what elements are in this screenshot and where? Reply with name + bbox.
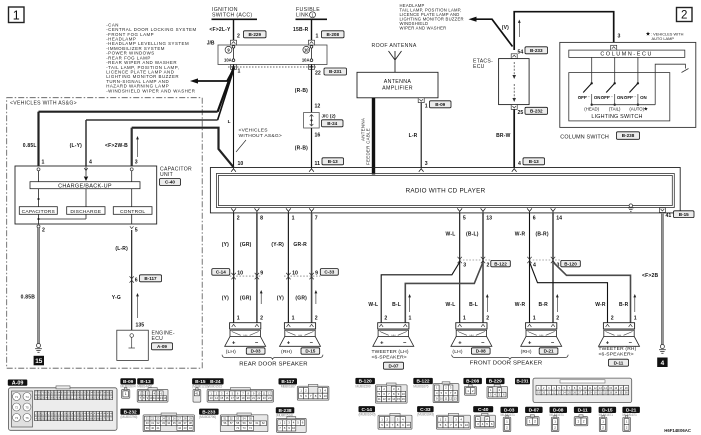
svg-text:10: 10	[292, 270, 298, 276]
svg-text:1: 1	[292, 316, 295, 322]
svg-text:148: 148	[109, 413, 114, 416]
svg-text:1: 1	[125, 392, 127, 396]
svg-text:(L-R): (L-R)	[115, 246, 128, 252]
svg-text:2: 2	[260, 316, 263, 322]
svg-text:C-40: C-40	[478, 407, 489, 413]
svg-text:ECU: ECU	[152, 336, 164, 342]
svg-text:FRONT DOOR SPEAKER: FRONT DOOR SPEAKER	[470, 361, 543, 367]
svg-text:9: 9	[260, 270, 263, 276]
svg-text:41: 41	[666, 213, 672, 219]
svg-text:COLUMN-ECU: COLUMN-ECU	[600, 52, 653, 58]
svg-text:(B-R): (B-R)	[535, 231, 548, 237]
svg-text:A-09: A-09	[157, 344, 167, 349]
svg-text:1: 1	[292, 216, 295, 222]
svg-text:OFF: OFF	[601, 95, 610, 100]
svg-text:2: 2	[42, 228, 45, 234]
svg-text:100: 100	[109, 392, 114, 395]
svg-text:2: 2	[237, 34, 240, 40]
svg-text:2: 2	[315, 316, 318, 322]
svg-text:14: 14	[556, 216, 562, 222]
svg-text:CAPACITORS: CAPACITORS	[22, 209, 56, 215]
svg-text:−: −	[551, 341, 555, 347]
svg-text:AUTO LAMP: AUTO LAMP	[652, 36, 675, 41]
svg-text:(HEAD): (HEAD)	[584, 107, 599, 112]
svg-text:73: 73	[15, 416, 19, 420]
svg-text:MU801676: MU801676	[413, 384, 428, 388]
svg-text:<VEHICLES: <VEHICLES	[239, 128, 269, 134]
svg-text:54: 54	[518, 50, 524, 56]
svg-text:B-208: B-208	[326, 32, 339, 37]
svg-text:REAR DOOR SPEAKER: REAR DOOR SPEAKER	[239, 362, 308, 368]
svg-text:D-08: D-08	[476, 349, 486, 354]
svg-text:<F>2B: <F>2B	[642, 273, 658, 279]
svg-text:22: 22	[315, 71, 321, 77]
svg-text:(TAIL): (TAIL)	[609, 107, 621, 112]
svg-text:B-R: B-R	[539, 302, 549, 308]
svg-text:B-R: B-R	[619, 302, 629, 308]
svg-text:10A: 10A	[224, 58, 232, 63]
svg-text:(RH): (RH)	[281, 349, 292, 355]
svg-text:13: 13	[387, 397, 390, 401]
svg-text:(GR): (GR)	[240, 296, 252, 302]
svg-text:11: 11	[315, 161, 321, 167]
svg-text:ON: ON	[640, 95, 647, 100]
svg-text:C-14: C-14	[216, 270, 226, 275]
svg-text:B-232: B-232	[530, 108, 543, 113]
svg-text:W-R: W-R	[595, 302, 606, 308]
svg-text:15: 15	[397, 397, 400, 401]
svg-text:OFF: OFF	[578, 95, 587, 100]
svg-text:L: L	[228, 119, 231, 125]
svg-text:C-33: C-33	[324, 270, 334, 275]
svg-text:B-13: B-13	[529, 159, 539, 164]
svg-text:AMPLIFIER: AMPLIFIER	[382, 86, 413, 92]
svg-text:13: 13	[486, 216, 492, 222]
svg-text:TWEETER (RH): TWEETER (RH)	[599, 346, 637, 352]
svg-text:71: 71	[15, 395, 19, 399]
svg-text:135: 135	[136, 323, 145, 329]
svg-text:8: 8	[260, 216, 263, 222]
svg-text:12: 12	[449, 396, 452, 400]
svg-text:Y-G: Y-G	[112, 295, 121, 301]
svg-text:MUM1671: MUM1671	[622, 413, 637, 417]
svg-text:1: 1	[529, 419, 531, 423]
svg-text:MU803904: MU803904	[120, 385, 135, 389]
svg-text:2: 2	[583, 419, 585, 423]
svg-text:10: 10	[406, 423, 410, 427]
svg-text:ON: ON	[594, 95, 601, 100]
svg-text:D-21: D-21	[544, 349, 554, 354]
svg-text:D-15: D-15	[305, 349, 315, 354]
svg-text:LIGHTING SWITCH: LIGHTING SWITCH	[591, 114, 642, 120]
svg-text:UNIT: UNIT	[160, 172, 173, 178]
svg-text:RADIO WITH CD PLAYER: RADIO WITH CD PLAYER	[406, 187, 486, 194]
svg-text:MUM1671: MUM1671	[550, 413, 565, 417]
svg-text:CHARGE/BACK-UP: CHARGE/BACK-UP	[58, 183, 112, 189]
svg-text:1: 1	[634, 316, 637, 322]
svg-text:(GR): (GR)	[240, 242, 252, 248]
svg-text:124: 124	[109, 396, 114, 399]
svg-text:(Y-R): (Y-R)	[271, 242, 284, 248]
svg-text:0.85B: 0.85B	[21, 295, 36, 301]
svg-text:76: 76	[25, 416, 29, 420]
svg-text:(MB801211): (MB801211)	[192, 385, 208, 389]
svg-text:(Y): (Y)	[277, 296, 284, 302]
svg-text:(LH): (LH)	[226, 349, 236, 355]
svg-text:-WINDSHIELD WIPER AND WASHER: -WINDSHIELD WIPER AND WASHER	[106, 88, 195, 93]
svg-text:15: 15	[35, 358, 43, 365]
svg-text:9: 9	[315, 270, 318, 276]
svg-text:B-09: B-09	[435, 102, 445, 107]
svg-text:4: 4	[518, 161, 521, 167]
svg-text:10: 10	[238, 161, 244, 167]
svg-text:B-208: B-208	[466, 379, 479, 385]
svg-text:B-13: B-13	[328, 159, 338, 164]
svg-text:14: 14	[392, 397, 395, 401]
svg-text:1: 1	[463, 316, 466, 322]
svg-text:12: 12	[383, 397, 386, 401]
svg-text:1: 1	[237, 316, 240, 322]
svg-text:4: 4	[661, 360, 665, 367]
svg-text:6: 6	[135, 278, 138, 284]
svg-text:OFF: OFF	[624, 95, 633, 100]
svg-text:3: 3	[618, 34, 621, 40]
svg-text:MB801867: MB801867	[281, 385, 296, 389]
svg-text:10A: 10A	[302, 58, 310, 63]
svg-text:B-L: B-L	[469, 302, 478, 308]
svg-text:ON: ON	[617, 95, 624, 100]
svg-text:LINK: LINK	[296, 13, 309, 19]
svg-text:2: 2	[681, 10, 687, 22]
svg-text:W-R: W-R	[515, 231, 526, 237]
svg-text:(RH): (RH)	[521, 349, 532, 355]
svg-text:2: 2	[486, 316, 489, 322]
svg-text:MUM1671: MUM1671	[599, 413, 614, 417]
svg-text:B-231: B-231	[329, 69, 342, 74]
svg-text:+: +	[458, 341, 462, 347]
svg-text:B-233: B-233	[530, 48, 543, 53]
svg-text:WIPER AND WASHER: WIPER AND WASHER	[400, 25, 447, 30]
svg-text:+: +	[232, 341, 236, 347]
svg-text:(Y): (Y)	[222, 242, 229, 248]
svg-text:11: 11	[378, 397, 381, 401]
svg-text:3: 3	[425, 161, 428, 167]
svg-text:W-L: W-L	[446, 231, 456, 237]
svg-text:41: 41	[195, 391, 199, 395]
svg-text:10: 10	[304, 48, 309, 53]
svg-text:−: −	[255, 341, 259, 347]
svg-text:<6-SPEAKER>: <6-SPEAKER>	[372, 355, 407, 361]
svg-text:4: 4	[533, 262, 536, 268]
svg-text:W-L: W-L	[446, 302, 456, 308]
svg-text:1: 1	[409, 316, 412, 322]
svg-text:(B-L): (B-L)	[466, 231, 479, 237]
svg-text:+: +	[528, 341, 532, 347]
svg-text:<VEHICLES WITH AS&G>: <VEHICLES WITH AS&G>	[10, 101, 77, 107]
svg-text:16: 16	[315, 133, 321, 139]
svg-text:GR-R: GR-R	[293, 242, 307, 248]
svg-text:ECU: ECU	[473, 64, 485, 70]
svg-text:1: 1	[533, 316, 536, 322]
svg-text:11: 11	[445, 396, 448, 400]
svg-text:172: 172	[109, 417, 114, 420]
svg-text:1: 1	[577, 419, 579, 423]
svg-text:(Y): (Y)	[222, 296, 229, 302]
svg-text:SWITCH (ACC): SWITCH (ACC)	[212, 13, 253, 19]
svg-text:<6-SPEAKER>: <6-SPEAKER>	[599, 352, 634, 358]
svg-text:2: 2	[237, 216, 240, 222]
svg-text:−: −	[481, 341, 485, 347]
svg-text:3: 3	[135, 160, 138, 166]
svg-text:B-L: B-L	[392, 302, 401, 308]
svg-text:<F>2W-B: <F>2W-B	[105, 143, 128, 149]
svg-text:CONTROL: CONTROL	[120, 209, 145, 215]
svg-text:B-122: B-122	[494, 261, 507, 266]
svg-text:D-07: D-07	[389, 363, 399, 368]
svg-text:B-231: B-231	[517, 379, 530, 384]
svg-text:13: 13	[454, 396, 457, 400]
svg-text:(R-B): (R-B)	[295, 146, 308, 152]
svg-text:12: 12	[315, 104, 321, 110]
svg-text:1: 1	[425, 103, 428, 109]
svg-text:10: 10	[237, 270, 243, 276]
svg-text:3: 3	[463, 262, 466, 268]
svg-text:BR-W: BR-W	[496, 133, 510, 139]
svg-text:D-11: D-11	[578, 408, 588, 414]
svg-text:7: 7	[315, 216, 318, 222]
svg-text:4: 4	[89, 160, 92, 166]
svg-text:(MU803796): (MU803796)	[199, 415, 216, 419]
svg-text:15B-R: 15B-R	[293, 27, 309, 33]
svg-text:10: 10	[440, 396, 443, 400]
svg-text:(MU803796): (MU803796)	[120, 415, 137, 419]
svg-text:B-15: B-15	[679, 212, 689, 217]
svg-text:L-R: L-R	[409, 133, 418, 139]
svg-text:1: 1	[42, 160, 45, 166]
svg-text:COLUMN SWITCH: COLUMN SWITCH	[560, 134, 609, 140]
svg-text:FEEDER CABLE: FEEDER CABLE	[366, 128, 371, 165]
svg-text:5: 5	[135, 228, 138, 234]
svg-text:2: 2	[556, 316, 559, 322]
svg-text:1: 1	[13, 9, 20, 23]
svg-text:H6F14E06AC: H6F14E06AC	[664, 428, 691, 433]
svg-text:10: 10	[292, 426, 296, 430]
svg-text:TWEETER (LH): TWEETER (LH)	[372, 349, 409, 355]
svg-text:(L-Y): (L-Y)	[70, 143, 83, 149]
svg-text:B-229: B-229	[248, 32, 261, 37]
svg-text:10: 10	[402, 392, 405, 396]
svg-text:D-07: D-07	[529, 408, 540, 414]
svg-text:DISCHARGE: DISCHARGE	[70, 209, 101, 215]
svg-text:75: 75	[25, 405, 29, 409]
svg-text:W-L: W-L	[368, 302, 378, 308]
svg-text:(LH): (LH)	[452, 349, 462, 355]
svg-text:16: 16	[402, 397, 405, 401]
svg-text:C-40: C-40	[165, 180, 175, 185]
svg-text:5: 5	[463, 216, 466, 222]
svg-text:MU801599: MU801599	[355, 384, 370, 388]
svg-text:J/C (2): J/C (2)	[322, 114, 337, 119]
svg-text:(MU801643): (MU801643)	[359, 412, 376, 416]
svg-text:A-09: A-09	[12, 381, 24, 387]
svg-text:6: 6	[533, 216, 536, 222]
svg-text:D-03: D-03	[251, 349, 261, 354]
svg-text:B-24: B-24	[327, 121, 337, 126]
svg-text:2: 2	[534, 419, 536, 423]
svg-text:1: 1	[316, 34, 319, 40]
svg-text:10: 10	[465, 423, 469, 427]
svg-text:B-117: B-117	[144, 276, 157, 281]
svg-text:(AUTO): (AUTO)	[629, 107, 644, 112]
svg-text:0.85L: 0.85L	[23, 143, 37, 149]
svg-text:74: 74	[25, 395, 29, 399]
svg-text:25: 25	[518, 110, 524, 116]
svg-text:(MU801643): (MU801643)	[417, 412, 434, 416]
svg-text:2: 2	[611, 316, 614, 322]
svg-text:B-238: B-238	[622, 133, 635, 138]
svg-text:(V): (V)	[502, 25, 509, 31]
svg-text:B-120: B-120	[564, 261, 577, 266]
svg-text:(GR): (GR)	[295, 296, 307, 302]
svg-text:(R-B): (R-B)	[295, 88, 308, 94]
svg-text:W-R: W-R	[515, 302, 526, 308]
svg-text:B-229: B-229	[489, 379, 502, 385]
svg-text:MU801515: MU801515	[207, 385, 222, 389]
svg-text:ANTENNA: ANTENNA	[384, 79, 412, 85]
svg-text:J/B: J/B	[207, 40, 215, 46]
svg-text:<F>2L-Y: <F>2L-Y	[209, 27, 231, 33]
svg-text:2: 2	[487, 262, 490, 268]
svg-text:72: 72	[15, 405, 19, 409]
svg-text:2: 2	[384, 316, 387, 322]
svg-text:1: 1	[238, 69, 241, 75]
svg-text:10: 10	[323, 394, 327, 398]
svg-text:D-11: D-11	[614, 360, 624, 365]
svg-text:WITHOUT AS&G>: WITHOUT AS&G>	[239, 133, 283, 139]
svg-text:ROOF ANTENNA: ROOF ANTENNA	[372, 43, 417, 49]
